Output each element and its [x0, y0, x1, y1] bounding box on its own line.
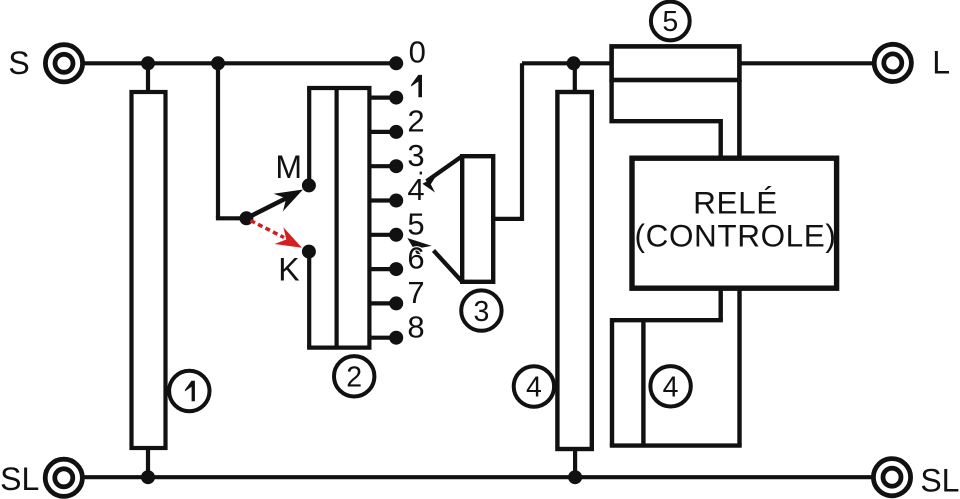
wire top rail S to tap 0 [85, 61, 397, 65]
resistor 5 body [612, 46, 740, 80]
svg-text:6: 6 [407, 241, 424, 276]
tap 4 stub [369, 198, 396, 202]
node junction top rail / resistor 4 [567, 56, 581, 70]
tap 6 node [389, 262, 403, 276]
svg-text:0: 0 [409, 34, 426, 69]
wire riser to top rail [520, 63, 524, 221]
wire relay bottom to resistor 4b [719, 288, 723, 320]
tap 5 node [389, 228, 403, 242]
switch arm M solid arrow [246, 190, 303, 219]
svg-text:7: 7 [407, 275, 424, 310]
svg-text:2: 2 [407, 104, 424, 139]
autotransformer 2 left edge upper segment [307, 88, 311, 185]
svg-text:K: K [278, 252, 299, 288]
autotransformer 2 bottom edge [307, 346, 371, 350]
wire stub resistor 4 top [573, 63, 577, 92]
resistor 4b bottom edge [610, 443, 742, 447]
node junction bottom rail / resistor 1 [141, 470, 155, 484]
tap 4 node [389, 194, 403, 208]
wire stub resistor 1 top [146, 63, 150, 92]
svg-text:4: 4 [407, 172, 424, 207]
tap 5 stub [369, 233, 396, 237]
circled label 3 [461, 290, 501, 330]
wire bottom rail SL to SL [85, 475, 872, 479]
tap 6 stub [369, 267, 396, 271]
resistor R1 body [132, 92, 166, 448]
svg-text:3: 3 [407, 138, 424, 173]
tap 3 node [389, 159, 403, 173]
svg-text:5: 5 [407, 206, 424, 241]
tap 8 node [389, 331, 403, 345]
selector 3 arrow to tap 5 [407, 238, 462, 282]
wire selector feed down [216, 63, 220, 218]
tap 7 stub [369, 301, 396, 305]
circled label 5 [651, 2, 690, 41]
node junction top rail / selector feed [211, 56, 225, 70]
svg-text:S: S [8, 45, 29, 81]
svg-text:L: L [932, 45, 950, 81]
svg-text:RELÉ: RELÉ [693, 185, 778, 221]
terminal S [45, 45, 82, 82]
svg-text:3: 3 [473, 296, 489, 328]
circled label 1 [169, 371, 209, 411]
svg-text:M: M [275, 149, 302, 185]
selector 3 arrow to tap 4 [422, 156, 462, 192]
svg-text:4: 4 [526, 372, 542, 404]
contact M dot [302, 178, 316, 192]
terminal SL-right [873, 459, 910, 496]
relay (controle) box [632, 158, 837, 288]
svg-text:2: 2 [346, 362, 362, 394]
wire resistor 5 bottom tap to relay top [612, 80, 721, 158]
tap 0 node [389, 56, 403, 70]
tap 3 stub [369, 164, 396, 168]
autotransformer 2 inner divider [335, 88, 339, 348]
selector block 3 body [462, 156, 493, 282]
wire relay bottom right leg [737, 288, 741, 445]
autotransformer 2 right edge [367, 88, 371, 348]
circled label 4 right [650, 366, 690, 406]
switch arm K red dashed arrow [251, 221, 302, 248]
tap 2 stub [369, 130, 396, 134]
svg-text:(CONTROLE): (CONTROLE) [635, 217, 837, 253]
terminal SL-left [45, 459, 82, 496]
wire top rail right segment to L [739, 61, 872, 65]
svg-text:5: 5 [662, 6, 678, 38]
autotransformer 2 top edge [307, 86, 371, 90]
resistor 4 body [557, 92, 591, 449]
tap 1 label [411, 75, 422, 97]
tap 8 stub [369, 336, 396, 340]
contact K dot [302, 245, 316, 259]
tap 2 node [389, 125, 403, 139]
wire stub resistor 4 bottom [573, 449, 577, 477]
svg-text:SL: SL [920, 462, 959, 498]
circled label 2 [334, 356, 374, 396]
selector pivot node [239, 211, 253, 225]
node junction top rail / resistor 1 [141, 56, 155, 70]
svg-text:8: 8 [407, 309, 424, 344]
circled label 4 left [514, 366, 554, 406]
tap 1 node [389, 91, 403, 105]
svg-text:4: 4 [663, 372, 679, 404]
wire top rail middle segment [522, 61, 612, 65]
stray mark above tap 4 [420, 172, 422, 175]
tap 7 node [389, 296, 403, 310]
svg-text:SL: SL [0, 461, 39, 497]
wire resistor 5 right side down to relay top [737, 80, 742, 158]
resistor 4b left edge [610, 318, 614, 446]
resistor 4b top edge [612, 318, 723, 322]
tap 1 stub [369, 95, 396, 99]
wire selector feed across to pivot [216, 216, 247, 220]
wire stub resistor 1 bottom [146, 448, 150, 477]
wire selector 3 output [493, 217, 522, 221]
node junction bottom rail / resistor 4 [568, 470, 582, 484]
resistor 4b inner divider [641, 320, 645, 445]
autotransformer 2 left edge lower segment [307, 252, 311, 348]
terminal L [874, 44, 911, 81]
